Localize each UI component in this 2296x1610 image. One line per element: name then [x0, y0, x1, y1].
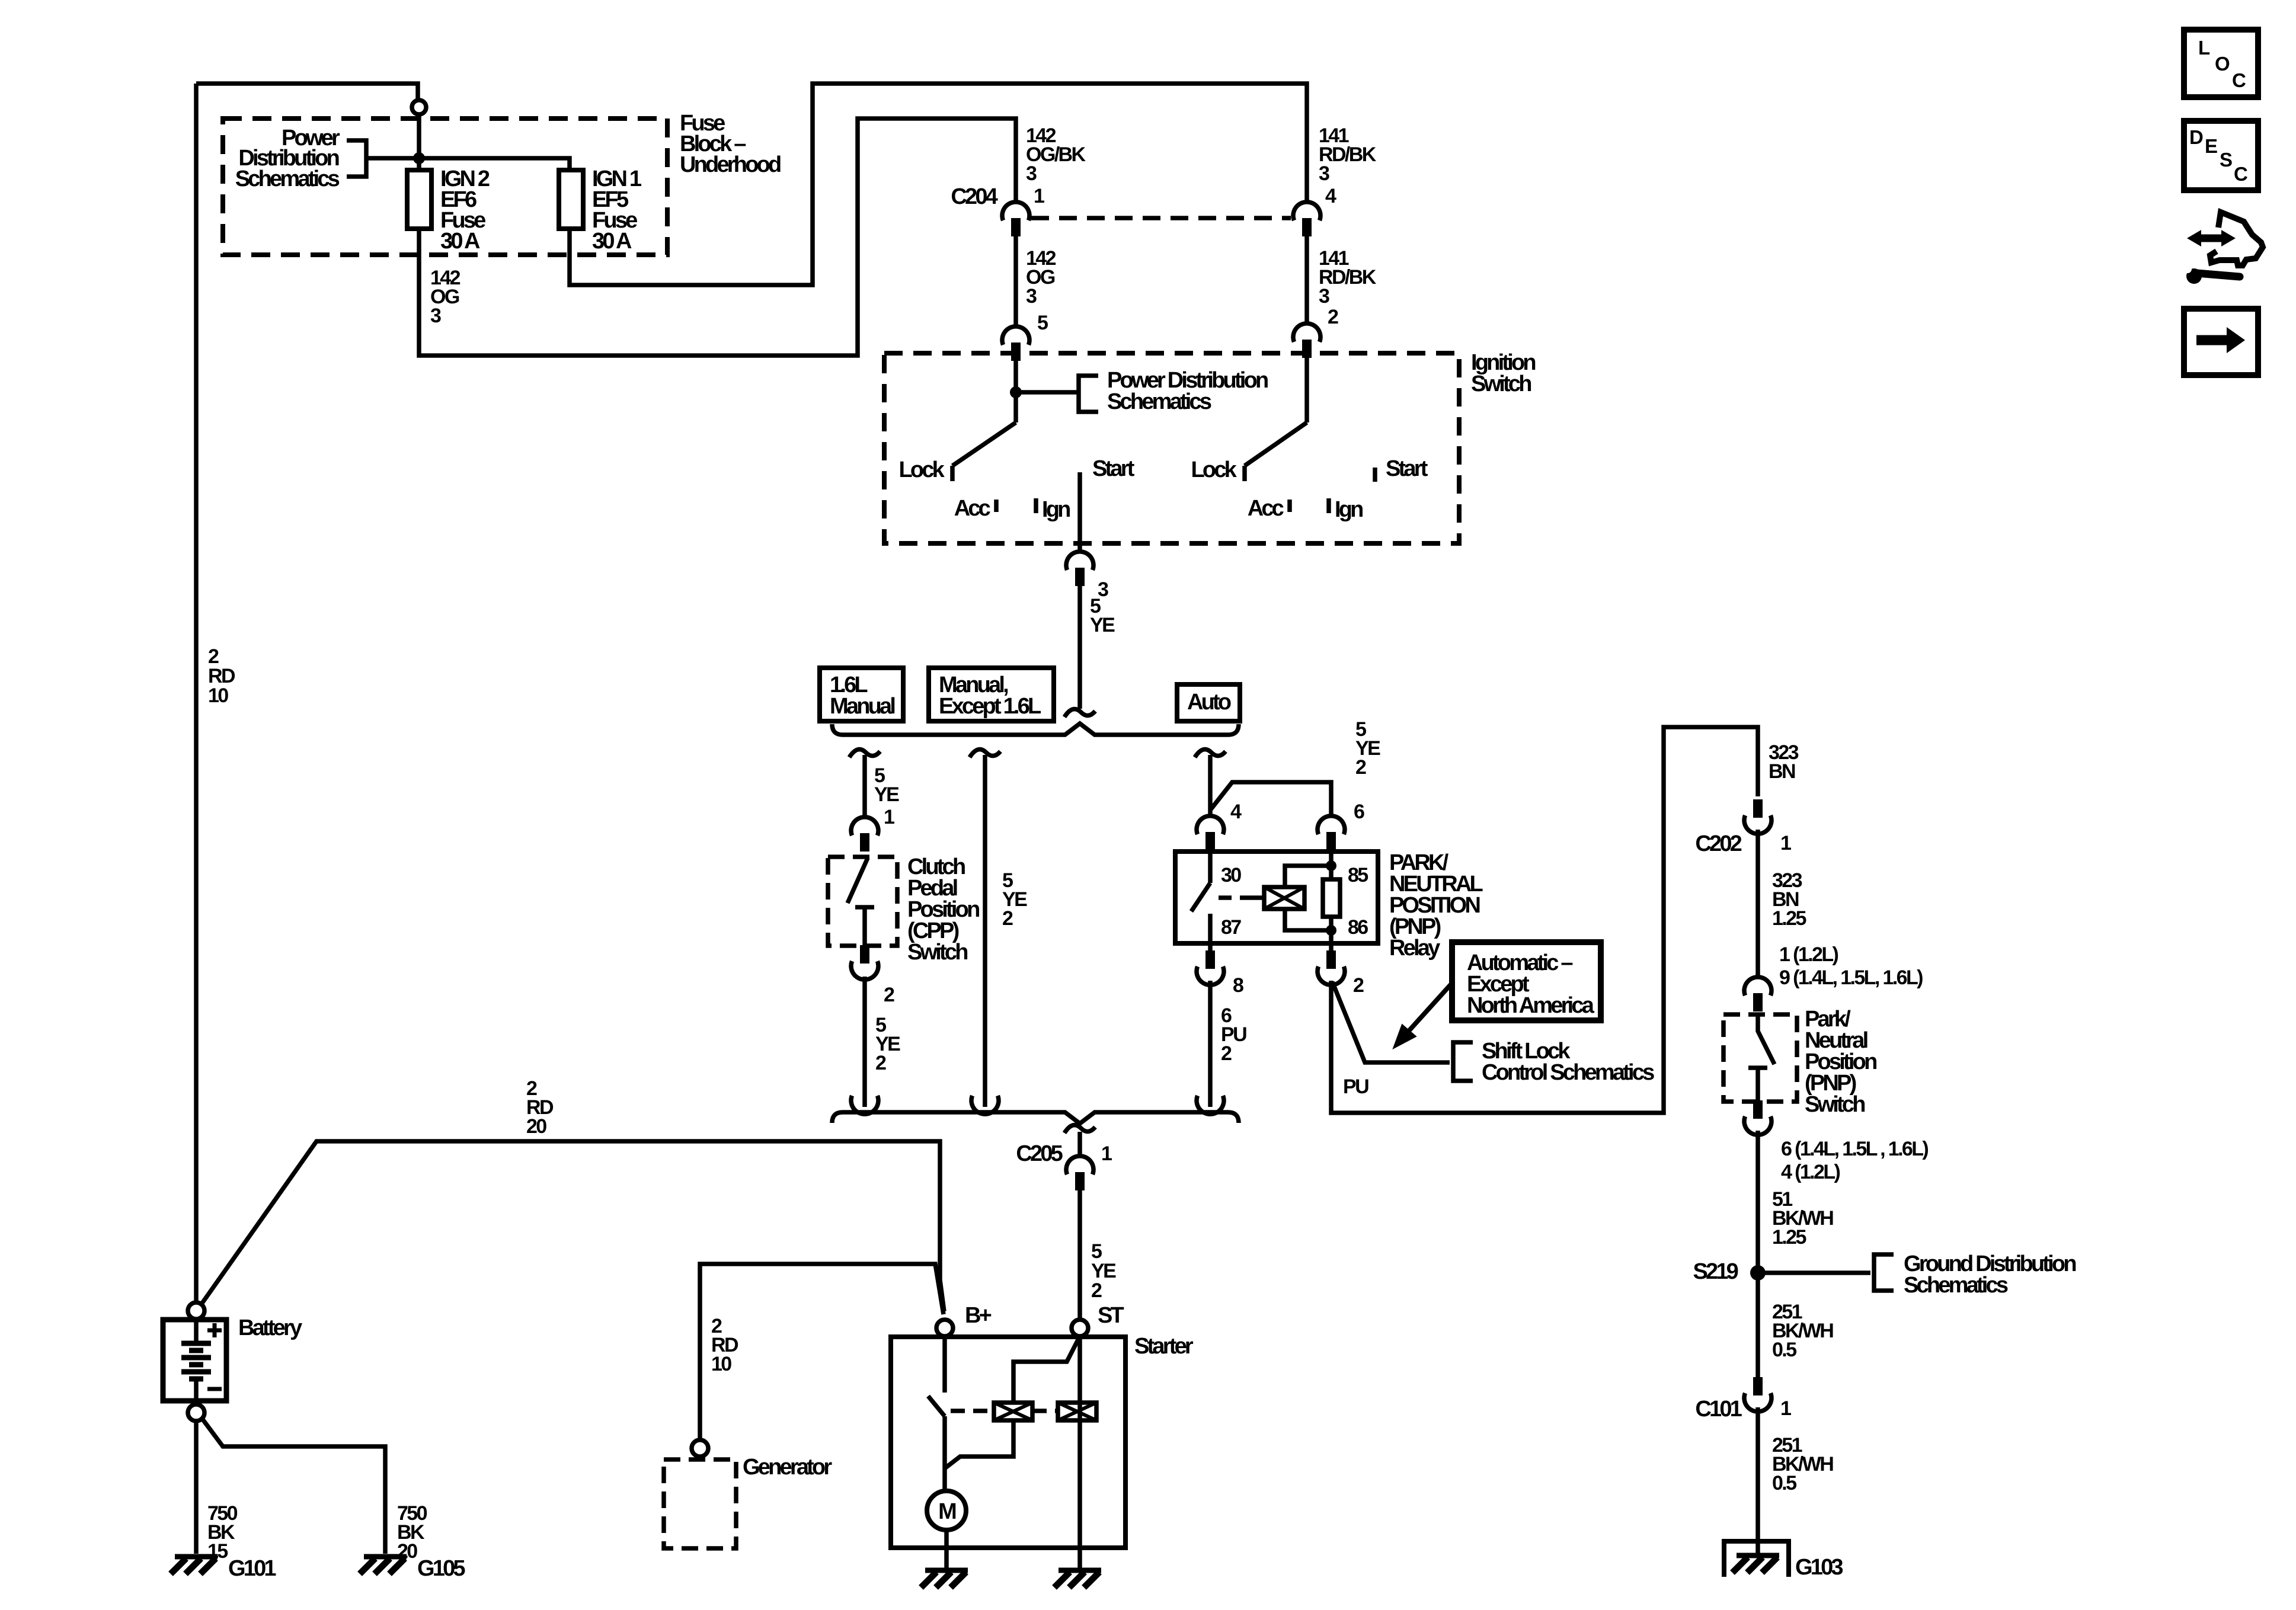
- svg-text:4: 4: [1230, 801, 1242, 823]
- wire start contact down: [1077, 472, 1082, 553]
- branch 1 bottom connector arc: [851, 1096, 878, 1114]
- wire IGN1 output 141 RD/BK to C204 pin 4: [570, 84, 1307, 285]
- svg-text:5: 5: [1037, 312, 1048, 334]
- label 51 BK/WH 1.25: [1772, 1188, 1833, 1249]
- svg-text:Start: Start: [1386, 456, 1428, 481]
- wire relay pin4 into box: [1208, 849, 1213, 883]
- wire solenoid to motor: [942, 1416, 947, 1491]
- svg-text:6 (1.4L, 1.5L , 1.6L): 6 (1.4L, 1.5L , 1.6L): [1781, 1138, 1928, 1160]
- junction dot switch 1: [1010, 386, 1022, 398]
- label 251 BK/WH 0.5 (upper): [1772, 1301, 1833, 1361]
- connector C204 pin 1: [1002, 202, 1029, 236]
- connector C202: [1744, 799, 1771, 834]
- wire pin8 to bottom brace: [1208, 981, 1213, 1107]
- switch 2 ign contact: [1326, 498, 1331, 513]
- wire PNP to S219: [1755, 1131, 1760, 1273]
- node 85 dot: [1326, 860, 1336, 871]
- svg-text:1: 1: [884, 806, 894, 828]
- relay coil lead: [1252, 895, 1264, 900]
- PNP switch dashed box: [1723, 1014, 1797, 1102]
- svg-text:87: 87: [1221, 916, 1241, 939]
- svg-text:YE: YE: [1090, 614, 1115, 636]
- callout arrow: [1394, 983, 1452, 1048]
- label Clutch Pedal Position (CPP) Switch: [907, 854, 979, 965]
- icon double arrow: [2187, 230, 2236, 247]
- wire motor to ground: [944, 1530, 949, 1568]
- wire battery top run: [196, 84, 418, 99]
- splice S219 dot: [1750, 1265, 1766, 1281]
- wire branch to pull-in coil: [945, 1420, 1013, 1468]
- switch 1 lock contact: [950, 466, 955, 481]
- svg-text:1: 1: [1780, 832, 1791, 854]
- connector C205: [1066, 1156, 1093, 1190]
- label IGN 1 EF5 Fuse 30 A: [592, 167, 642, 254]
- svg-text:G105: G105: [417, 1556, 465, 1581]
- wire pin2 down to PU run: [1331, 727, 1758, 1113]
- label 141 RD/BK 3 (above C204): [1319, 124, 1377, 185]
- node 86 dot: [1326, 925, 1336, 936]
- svg-text:1: 1: [1034, 185, 1044, 207]
- label Park/Neutral Position (PNP) Switch: [1805, 1007, 1876, 1117]
- svg-text:Starter: Starter: [1134, 1334, 1194, 1359]
- label 6 PU 2: [1221, 1004, 1246, 1065]
- svg-text:0.5: 0.5: [1772, 1472, 1796, 1494]
- connector pin 3 (ignition output): [1066, 552, 1093, 586]
- generator terminal circle: [692, 1440, 708, 1457]
- branch 3 top connector arc: [1195, 750, 1226, 757]
- svg-text:2: 2: [1328, 306, 1338, 328]
- relay switch blade: [1191, 883, 1210, 911]
- svg-text:2: 2: [884, 984, 894, 1006]
- svg-text:8: 8: [1233, 974, 1243, 997]
- svg-text:Except 1.6L: Except 1.6L: [939, 694, 1041, 719]
- svg-text:C: C: [2232, 69, 2246, 91]
- connector C204 pin 4: [1293, 202, 1320, 236]
- svg-text:Auto: Auto: [1187, 690, 1231, 715]
- label 5 YE 2 (starter feed): [1091, 1240, 1116, 1302]
- svg-text:BN: BN: [1769, 760, 1795, 783]
- label 5 YE (branch1): [874, 764, 899, 806]
- svg-text:C: C: [2234, 163, 2248, 185]
- starter actuator dashed link: [951, 1409, 994, 1413]
- switch 2 blade: [1245, 422, 1307, 466]
- svg-text:North America: North America: [1467, 993, 1595, 1018]
- ground G101: [171, 1557, 218, 1574]
- svg-text:10: 10: [711, 1353, 731, 1375]
- svg-text:3: 3: [430, 305, 441, 327]
- svg-text:30 A: 30 A: [440, 229, 480, 254]
- svg-text:Manual: Manual: [830, 694, 894, 719]
- wire branch3 to relay pin4: [1208, 755, 1213, 818]
- relay actuator dashed link: [1219, 895, 1252, 900]
- svg-text:1.25: 1.25: [1772, 907, 1806, 930]
- battery positive terminal circle: [188, 1302, 204, 1319]
- connector relay pin 4: [1197, 816, 1224, 850]
- wire pin3 to brace: [1077, 585, 1082, 709]
- relay switch lower stub: [1208, 914, 1213, 952]
- CPP switch blade: [848, 858, 868, 903]
- PNP lower contact: [1748, 1068, 1767, 1102]
- connector PNP switch top: [1744, 977, 1771, 1012]
- svg-text:Switch: Switch: [1805, 1092, 1865, 1117]
- starter motor M: [927, 1491, 966, 1530]
- fuse block underhood dashed box: [223, 119, 667, 255]
- switch 2 start contact: [1373, 468, 1377, 482]
- ground G103 enclosure: [1724, 1541, 1789, 1577]
- label 142 OG 3 (below C204): [1026, 247, 1056, 308]
- svg-text:3: 3: [1026, 285, 1037, 308]
- svg-text:85: 85: [1348, 864, 1368, 886]
- wire tag to fuse column: [366, 158, 570, 170]
- connector pin 2 (ignition feed right): [1293, 324, 1320, 358]
- ground starter solenoid: [1054, 1570, 1101, 1587]
- svg-text:3: 3: [1319, 162, 1329, 185]
- svg-text:30: 30: [1221, 864, 1241, 886]
- label 5 YE 2 (branch1 lower): [875, 1014, 900, 1074]
- CPP lower contact: [855, 907, 874, 946]
- label 141 RD/BK 3 (below C204): [1319, 247, 1377, 308]
- svg-text:Ign: Ign: [1335, 497, 1363, 522]
- svg-text:Lock: Lock: [899, 457, 945, 482]
- label Power Distribution Schematics (ignition): [1107, 368, 1268, 414]
- off-page tag bracket (shift lock): [1453, 1042, 1473, 1081]
- wire label 2 RD 10: [208, 645, 235, 707]
- label 5 YE 2 (pin6 wire): [1355, 718, 1380, 779]
- connector pin 5 (ignition feed left): [1002, 327, 1029, 361]
- svg-text:C205: C205: [1016, 1141, 1063, 1166]
- callout box Automatic Except North America: [1452, 942, 1601, 1020]
- branch 1 top connector arc: [849, 750, 880, 757]
- wire 2 RD 10 branch to generator: [700, 1264, 944, 1440]
- starter B+ terminal circle: [936, 1320, 953, 1336]
- wire pin6 into box to resistor: [1329, 849, 1334, 879]
- option box Auto: [1177, 684, 1240, 721]
- label Ignition Switch: [1471, 350, 1535, 396]
- wire coil top tap to node 85: [1285, 866, 1331, 887]
- label Power Distribution Schematics (fuse block): [235, 126, 340, 191]
- svg-text:4: 4: [1325, 185, 1336, 207]
- svg-text:10: 10: [208, 684, 228, 707]
- svg-text:S: S: [2220, 149, 2233, 171]
- ground starter motor: [921, 1570, 968, 1587]
- ground G105: [360, 1557, 407, 1574]
- junction dot: [413, 152, 425, 164]
- svg-text:30 A: 30 A: [592, 229, 632, 254]
- wire resistor to box bottom: [1329, 917, 1334, 952]
- svg-text:G101: G101: [228, 1556, 276, 1581]
- wire C204 pin4 down: [1304, 235, 1309, 323]
- battery plus sign: [207, 1323, 222, 1337]
- label Ground Distribution Schematics: [1904, 1251, 2076, 1298]
- svg-text:1 (1.2L): 1 (1.2L): [1779, 943, 1838, 966]
- label Shift Lock Control Schematics: [1482, 1039, 1654, 1085]
- ignition switch dashed box: [884, 353, 1459, 543]
- label 323 BN 1.25: [1772, 869, 1806, 930]
- battery box: [163, 1320, 226, 1401]
- svg-text:D: D: [2189, 126, 2204, 148]
- icon vehicle outline: [2210, 212, 2263, 265]
- wire battery minus to G101: [194, 1421, 199, 1554]
- ground G103: [1732, 1555, 1779, 1573]
- svg-text:Switch: Switch: [907, 940, 967, 965]
- starter ST terminal circle: [1072, 1320, 1088, 1336]
- svg-text:2: 2: [1355, 756, 1366, 779]
- svg-text:4 (1.2L): 4 (1.2L): [1781, 1161, 1840, 1183]
- branch 2 bottom connector arc: [971, 1096, 999, 1114]
- PNP switch blade: [1758, 1016, 1774, 1064]
- fuse IGN2 EF6: [407, 170, 431, 229]
- relay coil (bowtie): [1264, 887, 1304, 909]
- wire circle to fuse IGN2: [417, 114, 421, 170]
- svg-text:B+: B+: [965, 1303, 992, 1328]
- switch 2 lock contact: [1242, 466, 1247, 481]
- svg-text:Generator: Generator: [743, 1455, 832, 1480]
- wire B+ into starter: [942, 1336, 947, 1393]
- starter box: [891, 1337, 1125, 1548]
- svg-text:1: 1: [1101, 1142, 1112, 1165]
- label 2 RD 20: [526, 1077, 554, 1138]
- wire battery minus branch to G105: [202, 1419, 385, 1554]
- svg-text:Acc: Acc: [954, 496, 991, 521]
- wire C205 to ST: [1077, 1190, 1082, 1320]
- wire battery feed vertical: [194, 84, 199, 1303]
- svg-text:Start: Start: [1092, 456, 1135, 481]
- generator dashed box: [664, 1459, 736, 1548]
- svg-text:Control Schematics: Control Schematics: [1482, 1060, 1654, 1085]
- svg-text:2: 2: [1091, 1279, 1102, 1302]
- label 142 OG/BK 3 (above C204): [1026, 124, 1086, 185]
- svg-text:C202: C202: [1695, 831, 1741, 856]
- wire wave to C205: [1077, 1132, 1082, 1157]
- svg-text:Acc: Acc: [1248, 496, 1284, 521]
- label 5 YE (ignition output): [1090, 595, 1115, 636]
- svg-text:6: 6: [1354, 801, 1364, 823]
- svg-text:Switch: Switch: [1471, 372, 1531, 396]
- svg-text:Lock: Lock: [1191, 457, 1237, 482]
- svg-text:1: 1: [1780, 1397, 1791, 1420]
- bottom options brace: [832, 1112, 1239, 1124]
- wire C101 to G103: [1755, 1407, 1760, 1554]
- starter solenoid blade: [928, 1396, 945, 1416]
- svg-text:O: O: [2215, 53, 2230, 75]
- svg-text:86: 86: [1348, 916, 1368, 939]
- svg-text:C204: C204: [951, 184, 997, 209]
- starter dashed link between coils: [1032, 1409, 1058, 1413]
- wire relay pin6 loop: [1210, 782, 1331, 818]
- wire C204 pin1 down: [1013, 235, 1018, 326]
- wire pin2 into box: [1304, 356, 1309, 422]
- battery negative terminal circle: [188, 1404, 204, 1421]
- top options brace: [832, 724, 1239, 735]
- label 2 RD 10 (generator): [711, 1315, 738, 1375]
- svg-text:Relay: Relay: [1389, 936, 1440, 961]
- svg-text:ST: ST: [1098, 1303, 1124, 1328]
- switch 1 acc contact: [994, 500, 999, 512]
- off-page tag bracket (ignition): [1079, 376, 1098, 412]
- svg-text:1.25: 1.25: [1772, 1226, 1806, 1249]
- label 750 BK 20: [397, 1502, 427, 1563]
- battery plates: [181, 1320, 211, 1401]
- svg-text:Battery: Battery: [238, 1315, 302, 1340]
- wire S219 to C101: [1755, 1273, 1760, 1381]
- wire S219 to ground tag: [1758, 1270, 1870, 1275]
- svg-text:S219: S219: [1693, 1259, 1738, 1284]
- connector CPP pin 2: [851, 945, 878, 980]
- branch 3 bottom connector arc: [1197, 1096, 1224, 1114]
- battery minus sign: [207, 1387, 222, 1391]
- wire pin5 into box: [1013, 359, 1018, 422]
- connector relay pin 2: [1318, 950, 1345, 985]
- wire C202 to PNP switch: [1755, 830, 1760, 978]
- wire 2 RD 20 battery to starter B+: [201, 1141, 944, 1311]
- svg-text:L: L: [2198, 37, 2210, 59]
- svg-text:2: 2: [1353, 974, 1364, 997]
- svg-text:0.5: 0.5: [1772, 1339, 1796, 1361]
- svg-text:M: M: [938, 1499, 956, 1524]
- svg-text:E: E: [2205, 135, 2218, 157]
- connector relay pin 6: [1318, 816, 1345, 850]
- wire pull-in coil top loop to ST: [1013, 1336, 1080, 1403]
- fuse IGN1 EF5: [559, 170, 583, 229]
- label 750 BK 15: [207, 1502, 238, 1563]
- svg-text:G103: G103: [1795, 1555, 1843, 1580]
- wire ST through hold-in coil to ground: [1077, 1336, 1082, 1568]
- svg-text:2: 2: [1002, 907, 1013, 930]
- node splice circle at fuse feed: [412, 100, 426, 114]
- svg-text:Schematics: Schematics: [235, 167, 340, 191]
- svg-text:20: 20: [526, 1115, 546, 1138]
- svg-text:2: 2: [875, 1052, 886, 1074]
- svg-text:2: 2: [1221, 1042, 1232, 1065]
- wire coil bottom tap to node 86: [1285, 909, 1331, 930]
- icon LOC box: [2184, 30, 2258, 97]
- switch 2 acc contact: [1287, 500, 1292, 512]
- svg-text:Ign: Ign: [1042, 497, 1070, 522]
- option box Manual Except 1.6L: [929, 668, 1054, 721]
- wire branch2: [983, 755, 987, 1107]
- svg-text:Schematics: Schematics: [1107, 389, 1211, 414]
- svg-text:PU: PU: [1343, 1076, 1368, 1098]
- icon wrench: [2183, 265, 2240, 284]
- connector PNP switch bottom: [1744, 1100, 1771, 1135]
- switch 1 blade: [952, 422, 1016, 466]
- off-page tag bracket (fuse block): [347, 140, 366, 177]
- branch 2 top connector arc: [970, 750, 1000, 757]
- icon DESC box: [2184, 121, 2258, 190]
- wire branch1 lower: [862, 977, 867, 1107]
- label IGN 2 EF6 Fuse 30 A: [440, 167, 490, 254]
- svg-text:3: 3: [1319, 285, 1329, 308]
- starter hold-in coil (bowtie): [1058, 1403, 1096, 1420]
- wire IGN2 output 142 OG to C204 pin 1: [419, 119, 1016, 356]
- relay PNP box: [1175, 852, 1378, 943]
- starter pull-in coil (bowtie): [994, 1403, 1032, 1420]
- label 142 OG 3 (below IGN2): [430, 267, 461, 327]
- label 5 YE 2 (branch2): [1002, 869, 1027, 930]
- CPP switch dashed box: [828, 857, 897, 946]
- svg-text:YE: YE: [874, 783, 899, 806]
- svg-text:3: 3: [1026, 162, 1037, 185]
- label 323 BN (right riser): [1769, 741, 1799, 783]
- connector C101: [1744, 1377, 1771, 1411]
- wire pin2 diagonal to shift lock tag: [1332, 982, 1450, 1062]
- dashed connector link C204: [1031, 216, 1291, 220]
- svg-text:Underhood: Underhood: [680, 152, 781, 177]
- switch 1 ign contact: [1034, 498, 1038, 513]
- relay resistor: [1323, 879, 1340, 917]
- connector wave (above brace): [1064, 709, 1095, 717]
- icon forward arrow box: [2184, 309, 2258, 375]
- connector relay pin 8: [1197, 950, 1224, 985]
- label PARK/NEUTRAL POSITION (PNP) Relay: [1389, 850, 1483, 961]
- svg-text:9 (1.4L, 1.5L, 1.6L): 9 (1.4L, 1.5L, 1.6L): [1779, 966, 1923, 989]
- connector CPP pin 1: [851, 817, 878, 852]
- label 251 BK/WH 0.5 (lower): [1772, 1434, 1833, 1494]
- wire to tag (power distribution): [1016, 390, 1079, 395]
- wire brace cusp to C205: [1064, 1125, 1095, 1133]
- off-page tag bracket (ground distribution): [1874, 1254, 1894, 1291]
- label Fuse Block Underhood: [680, 111, 781, 177]
- svg-text:C101: C101: [1695, 1397, 1742, 1422]
- wire branch1 upper: [862, 755, 867, 817]
- option box 1.6L Manual: [820, 668, 903, 721]
- svg-text:Schematics: Schematics: [1904, 1273, 2008, 1298]
